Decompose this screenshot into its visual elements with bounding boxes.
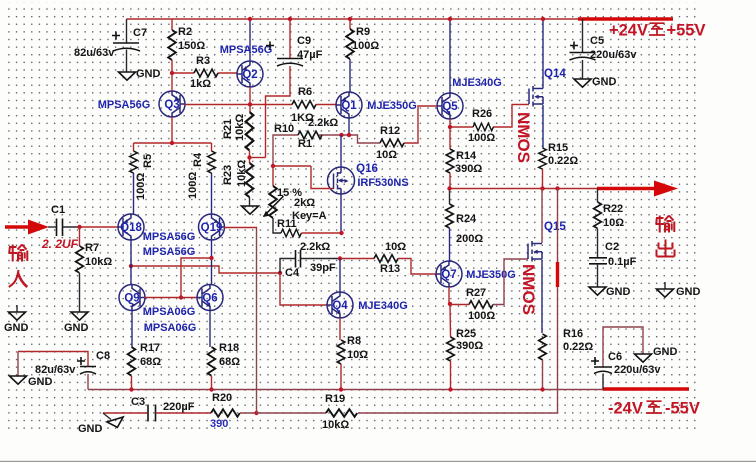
glyph zhi (to) — [646, 401, 662, 413]
resistor R19 — [257, 393, 358, 431]
node: feedback/R20/R19 — [254, 411, 258, 415]
svg-text:C2: C2 — [605, 241, 619, 253]
svg-text:R21: R21 — [222, 119, 234, 139]
ground (input, floating) — [4, 305, 29, 334]
svg-text:Q15: Q15 — [544, 221, 566, 233]
svg-text:C6: C6 — [608, 351, 622, 363]
resistor R6 — [291, 86, 336, 124]
feedback riser to Q19 base — [256, 228, 258, 413]
resistor R1/R10 — [274, 117, 338, 150]
node: R2/R3 junction — [170, 71, 174, 75]
svg-text:150Ω: 150Ω — [178, 40, 205, 52]
ground (R23) — [242, 206, 259, 214]
transistor Q3 — [98, 73, 185, 143]
glyph chu — [657, 240, 675, 257]
resistor R9 — [346, 19, 379, 92]
svg-text:GND: GND — [653, 346, 678, 358]
svg-text:MJE350G: MJE350G — [466, 269, 516, 281]
svg-text:R5: R5 — [142, 154, 154, 168]
ground (floating, right of C2) — [657, 282, 701, 298]
svg-text:10kΩ: 10kΩ — [234, 114, 246, 141]
wire: R1 row from left corner — [273, 135, 380, 166]
potentiometer (2k, Key=A) — [263, 166, 327, 233]
svg-text:Q19: Q19 — [201, 222, 223, 234]
svg-text:GND: GND — [64, 322, 89, 334]
resistor R18 — [208, 342, 241, 390]
svg-text:R3: R3 — [196, 55, 210, 67]
svg-text:R1: R1 — [298, 138, 312, 150]
MOSFET Q14 — [529, 19, 566, 148]
transistor Q6 — [197, 285, 223, 348]
svg-text:390Ω: 390Ω — [455, 163, 482, 175]
resistor R20 — [210, 392, 257, 430]
svg-text:GND: GND — [676, 286, 701, 298]
svg-text:47µF: 47µF — [297, 49, 323, 61]
resistor R27 — [450, 259, 528, 322]
svg-text:R26: R26 — [472, 108, 492, 120]
svg-text:MPSA56G: MPSA56G — [98, 99, 151, 111]
resistor R24 — [446, 189, 484, 262]
svg-text:MJE340G: MJE340G — [358, 300, 408, 312]
MOSFET Q15 — [528, 189, 566, 334]
node: Q16 drain junction — [339, 133, 343, 137]
svg-text:+55V: +55V — [667, 22, 706, 40]
svg-text:Q1: Q1 — [341, 100, 357, 112]
transistor Q1 — [336, 92, 417, 135]
node: R18 on -V rail — [209, 387, 213, 391]
ground (C5) — [574, 76, 617, 88]
svg-text:Q5: Q5 — [442, 101, 458, 113]
svg-text:10kΩ: 10kΩ — [322, 419, 349, 431]
svg-text:68Ω: 68Ω — [219, 356, 240, 368]
capacitor C7 — [74, 19, 147, 72]
svg-text:-24V: -24V — [608, 400, 643, 418]
node: feedback tap on output — [555, 186, 559, 190]
svg-text:Q2: Q2 — [242, 69, 257, 81]
glyph zhi (to) — [649, 23, 665, 35]
resistor R22 — [594, 189, 625, 258]
glyph ru — [9, 270, 27, 287]
svg-text:220u/63v: 220u/63v — [590, 49, 637, 61]
svg-text:R6: R6 — [298, 86, 312, 98]
svg-text:NMOS: NMOS — [519, 264, 538, 315]
svg-text:R9: R9 — [356, 26, 370, 38]
glyph shu — [9, 245, 28, 262]
svg-text:220µF: 220µF — [163, 401, 195, 413]
wire: R5/R4 top row — [134, 142, 212, 144]
svg-text:R10: R10 — [274, 123, 294, 135]
svg-text:100Ω: 100Ω — [187, 172, 199, 199]
node: R16 on -V rail — [540, 387, 544, 391]
output arrow — [597, 187, 656, 191]
svg-text:10Ω: 10Ω — [385, 241, 406, 253]
svg-text:Q16: Q16 — [356, 163, 378, 175]
svg-text:MPSA56G: MPSA56G — [143, 231, 196, 243]
svg-text:R7: R7 — [85, 242, 99, 254]
capacitor C8 — [18, 350, 110, 390]
node: on Q18-Q9 line — [129, 264, 133, 268]
resistor R13 — [340, 241, 436, 275]
resistor R15 — [539, 142, 579, 189]
capacitor C6 — [591, 327, 661, 389]
capacitor C9 — [266, 19, 323, 158]
svg-text:100Ω: 100Ω — [468, 132, 495, 144]
svg-text:Q18: Q18 — [120, 222, 142, 234]
svg-text:390: 390 — [210, 418, 228, 430]
svg-text:NMOS: NMOS — [514, 112, 533, 163]
svg-text:68Ω: 68Ω — [140, 356, 161, 368]
resistor R14 — [446, 127, 482, 189]
ground (R7) — [64, 312, 89, 334]
wire: Q4 base — [280, 273, 327, 305]
svg-text:2.2kΩ: 2.2kΩ — [300, 241, 330, 253]
svg-text:82u/63v: 82u/63v — [74, 47, 115, 59]
svg-text:2.2kΩ: 2.2kΩ — [308, 117, 338, 129]
resistor R5 (rotated labels) — [130, 143, 154, 214]
wire: -V bottom rail thin — [88, 389, 604, 391]
svg-text:R23: R23 — [222, 165, 234, 185]
svg-text:200Ω: 200Ω — [456, 233, 483, 245]
svg-text:GND: GND — [606, 286, 631, 298]
svg-text:10Ω: 10Ω — [603, 217, 624, 229]
svg-text:2kΩ: 2kΩ — [294, 197, 315, 209]
svg-text:R2: R2 — [178, 26, 192, 38]
transistor Q18 — [118, 214, 195, 285]
svg-text:R4: R4 — [192, 152, 204, 167]
svg-text:R20: R20 — [212, 392, 232, 404]
svg-text:R18: R18 — [219, 342, 239, 354]
ground (C7) — [119, 68, 161, 80]
capacitor C2 — [589, 241, 637, 287]
label +24V to +55V (red) — [609, 22, 706, 40]
wire: output node line — [450, 188, 598, 190]
svg-text:MPSA56G: MPSA56G — [143, 246, 196, 258]
svg-text:82u/63v: 82u/63v — [35, 364, 76, 376]
node: R15 bottom on output — [540, 186, 544, 190]
svg-text:R27: R27 — [466, 287, 486, 299]
svg-text:GND: GND — [78, 423, 103, 435]
node: Q1 emitter junction — [347, 133, 351, 137]
transistor Q5 — [404, 19, 502, 143]
svg-text:100Ω: 100Ω — [352, 40, 379, 52]
svg-text:R14: R14 — [456, 150, 477, 162]
svg-text:MJE350G: MJE350G — [367, 100, 417, 112]
label -24V to -55V (red) — [608, 400, 700, 418]
resistor R21 (rotated labels) — [222, 105, 253, 158]
svg-text:R16: R16 — [563, 328, 583, 340]
svg-text:R15: R15 — [548, 142, 568, 154]
svg-text:100Ω: 100Ω — [135, 173, 147, 200]
input arrow — [5, 225, 30, 228]
svg-text:C4: C4 — [285, 267, 300, 279]
wire: junction to C9 drop — [250, 157, 266, 159]
svg-text:Q4: Q4 — [332, 300, 348, 312]
-V bottom rail thick — [603, 387, 689, 391]
node: R9 top on rail — [348, 17, 352, 21]
resistor R7 — [76, 227, 113, 312]
wire: +V top rail from C7 to right — [127, 18, 580, 20]
label input (shu ru, red vertical) — [9, 245, 28, 288]
node: R17 on -V rail — [129, 387, 133, 391]
svg-text:Q7: Q7 — [441, 269, 456, 281]
svg-text:Q14: Q14 — [544, 68, 566, 80]
svg-text:+24V: +24V — [609, 22, 648, 40]
svg-text:GND: GND — [592, 76, 617, 88]
resistor R23 (rotated labels) — [222, 158, 253, 207]
feedback wire: output to R19 — [358, 189, 558, 414]
node: Q5 emitter / R26 / R14 — [448, 125, 452, 129]
capacitor C3 — [103, 396, 211, 422]
ground (C3, tilted) — [78, 413, 126, 435]
transistor Q19 — [199, 214, 257, 285]
svg-text:R19: R19 — [325, 393, 345, 405]
svg-text:C9: C9 — [297, 35, 311, 47]
ground (C6) — [635, 346, 678, 362]
node: Q2 top on rail — [248, 17, 252, 21]
wire: Q3 base to R6 / Q2 emitter node — [185, 104, 293, 106]
svg-text:-55V: -55V — [665, 400, 700, 418]
transistor Q7 — [436, 261, 516, 304]
svg-text:GND: GND — [28, 376, 53, 388]
ground (C8) — [10, 352, 53, 389]
svg-text:C3: C3 — [131, 396, 145, 408]
svg-text:R11: R11 — [277, 218, 297, 230]
svg-text:GND: GND — [136, 68, 161, 80]
svg-text:R12: R12 — [380, 125, 400, 137]
svg-text:Q3: Q3 — [164, 99, 179, 111]
capacitor C1 — [48, 204, 80, 236]
svg-text:R25: R25 — [456, 328, 476, 340]
capacitor C4 — [280, 241, 340, 279]
svg-text:C7: C7 — [133, 27, 147, 39]
resistor R25 — [447, 304, 484, 389]
svg-text:10Ω: 10Ω — [347, 349, 368, 361]
node: R25 on -V rail — [448, 387, 452, 391]
wire: C4 net from LTP node — [131, 266, 280, 273]
resistor R16 — [539, 328, 594, 389]
svg-text:Key=A: Key=A — [292, 210, 327, 222]
svg-text:220u/63v: 220u/63v — [614, 364, 661, 376]
svg-text:0.22Ω: 0.22Ω — [548, 155, 578, 167]
svg-text:MPSA06G: MPSA06G — [144, 322, 197, 334]
svg-text:100Ω: 100Ω — [468, 310, 495, 322]
resistor R17 — [128, 342, 162, 390]
wire: +V top rail thick segment — [578, 17, 673, 21]
svg-text:10kΩ: 10kΩ — [85, 256, 112, 268]
svg-text:10kΩ: 10kΩ — [236, 160, 248, 187]
svg-text:R22: R22 — [603, 203, 623, 215]
svg-text:39pF: 39pF — [310, 262, 336, 274]
svg-text:2. 2UF: 2. 2UF — [41, 237, 79, 251]
svg-text:0.1µF: 0.1µF — [608, 256, 637, 268]
node: C9 top on rail — [288, 17, 292, 21]
svg-text:IRF530NS: IRF530NS — [357, 177, 408, 189]
node: Q5 top on rail — [448, 17, 452, 21]
svg-text:R13: R13 — [380, 263, 400, 275]
glyph shu — [656, 216, 675, 233]
svg-text:MPSA56G: MPSA56G — [220, 44, 273, 56]
resistor R2 — [168, 19, 205, 73]
wire: Q19 collector to mirror bases — [181, 258, 212, 298]
node: Q7 emitter/R27/R25 — [448, 302, 452, 306]
svg-text:MJE340G: MJE340G — [452, 77, 502, 89]
capacitor C5 — [570, 19, 638, 79]
svg-text:GND: GND — [4, 322, 29, 334]
svg-text:C1: C1 — [51, 204, 65, 216]
label output (shu chu, red vertical) — [656, 216, 675, 257]
wire: C1 to Q18 base — [80, 226, 119, 228]
transistor Q9 — [119, 285, 197, 348]
node: Q14 drain on rail — [541, 17, 545, 21]
resistor R3 — [172, 55, 237, 90]
svg-text:MPSA06G: MPSA06G — [143, 306, 196, 318]
svg-text:R24: R24 — [456, 213, 477, 225]
svg-text:1kΩ: 1kΩ — [190, 78, 211, 90]
MOSFET Q16 IRF530NS — [273, 135, 409, 233]
node: R8 on -V rail — [339, 387, 343, 391]
svg-text:C8: C8 — [96, 350, 110, 362]
resistor R8 — [337, 335, 368, 389]
node: R11 / Q16 source junction — [339, 231, 343, 235]
resistor R11 — [281, 229, 342, 237]
transistor Q4 — [327, 259, 408, 341]
transistor Q2 — [220, 19, 273, 104]
node: R21/R23 junction — [247, 155, 251, 159]
svg-text:C5: C5 — [590, 35, 604, 47]
node: pot/R10 node X — [271, 164, 275, 168]
node: C4/R13/Q4 collector junction — [338, 256, 342, 260]
svg-text:Q9: Q9 — [124, 293, 139, 305]
ground (C2) — [589, 286, 631, 298]
resistor R12 — [376, 125, 404, 161]
svg-text:R17: R17 — [140, 342, 160, 354]
svg-text:390Ω: 390Ω — [456, 340, 483, 352]
resistor R26 — [450, 105, 529, 145]
svg-text:Q6: Q6 — [202, 293, 217, 305]
feedback thick segment — [556, 262, 559, 287]
node: C4/Q4-base junction — [278, 271, 282, 275]
svg-text:0.22Ω: 0.22Ω — [563, 341, 593, 353]
resistor R4 (rotated labels) — [187, 143, 215, 214]
svg-text:10Ω: 10Ω — [376, 149, 397, 161]
svg-text:R8: R8 — [347, 335, 361, 347]
